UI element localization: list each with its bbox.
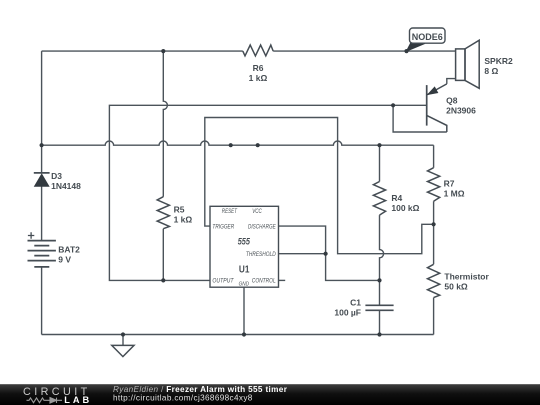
svg-text:1 kΩ: 1 kΩ: [249, 73, 268, 83]
svg-text:R5: R5: [174, 204, 185, 214]
transistor Q8: [393, 84, 476, 132]
capacitor C1: [334, 297, 393, 317]
resistor R7: [428, 168, 465, 202]
svg-text:8 Ω: 8 Ω: [484, 66, 498, 76]
wire bottom rail: [42, 334, 434, 336]
svg-text:SPKR2: SPKR2: [484, 56, 513, 66]
svg-text:1 MΩ: 1 MΩ: [444, 189, 465, 199]
svg-text:Thermistor: Thermistor: [444, 272, 489, 282]
svg-text:TRIGGER: TRIGGER: [212, 224, 234, 231]
wire vcc rail y145 with hops: [42, 141, 434, 145]
svg-text:R6: R6: [253, 63, 264, 73]
svg-text:50 kΩ: 50 kΩ: [444, 282, 468, 292]
svg-text:9 V: 9 V: [58, 254, 71, 264]
svg-text:BAT2: BAT2: [58, 244, 80, 254]
wire R5 branch: [163, 51, 167, 280]
wire base/output net: [109, 105, 426, 280]
svg-text:1N4148: 1N4148: [51, 181, 81, 191]
svg-text:http://circuitlab.com/cj368698: http://circuitlab.com/cj368698c4xy8: [113, 394, 253, 403]
wire R7/thermistor branch: [433, 145, 435, 334]
svg-text:D3: D3: [51, 171, 62, 181]
svg-text:LAB: LAB: [64, 395, 92, 405]
ground: [112, 335, 134, 357]
svg-text:THRESHOLD: THRESHOLD: [246, 251, 276, 258]
wire threshold stub: [279, 253, 326, 255]
thermistor: [428, 264, 490, 297]
svg-text:555: 555: [238, 237, 251, 247]
op-amp U1 555 box: [210, 206, 279, 287]
svg-text:2N3906: 2N3906: [446, 106, 476, 116]
svg-text:VCC: VCC: [252, 208, 262, 215]
svg-text:1 kΩ: 1 kΩ: [174, 214, 193, 224]
wire discharge route: [279, 226, 380, 280]
svg-text:100 µF: 100 µF: [334, 307, 361, 317]
resistor R6: [243, 45, 273, 83]
wire R4/C1 branch: [380, 145, 384, 334]
svg-text:RyanEldien / Freezer Alarm wit: RyanEldien / Freezer Alarm with 555 time…: [113, 385, 288, 394]
svg-text:100 kΩ: 100 kΩ: [391, 203, 419, 213]
svg-text:DISCHARGE: DISCHARGE: [248, 224, 276, 231]
svg-text:CONTROL: CONTROL: [252, 278, 276, 285]
wire top rail: [42, 50, 456, 52]
svg-text:OUTPUT: OUTPUT: [212, 278, 234, 285]
svg-text:NODE6: NODE6: [412, 32, 443, 42]
wire gnd stub: [243, 287, 245, 334]
footer bar: [0, 384, 540, 405]
svg-text:C1: C1: [350, 297, 361, 307]
svg-text:Q8: Q8: [446, 96, 458, 106]
svg-text:GND: GND: [239, 281, 249, 287]
node flag NODE6: [407, 28, 446, 51]
svg-text:U1: U1: [239, 265, 250, 276]
svg-text:RESET: RESET: [222, 208, 238, 215]
wire trigger route: [205, 118, 434, 254]
svg-text:R7: R7: [444, 179, 455, 189]
svg-text:R4: R4: [391, 193, 402, 203]
diode D3: [34, 171, 81, 191]
wire control stub: [279, 279, 286, 281]
footer logo glyph: [27, 398, 63, 403]
resistor R5: [157, 197, 192, 229]
resistor R4: [373, 182, 419, 216]
battery BAT2: [28, 232, 81, 267]
speaker SPKR2: [447, 40, 513, 88]
wire left rail: [41, 51, 43, 334]
